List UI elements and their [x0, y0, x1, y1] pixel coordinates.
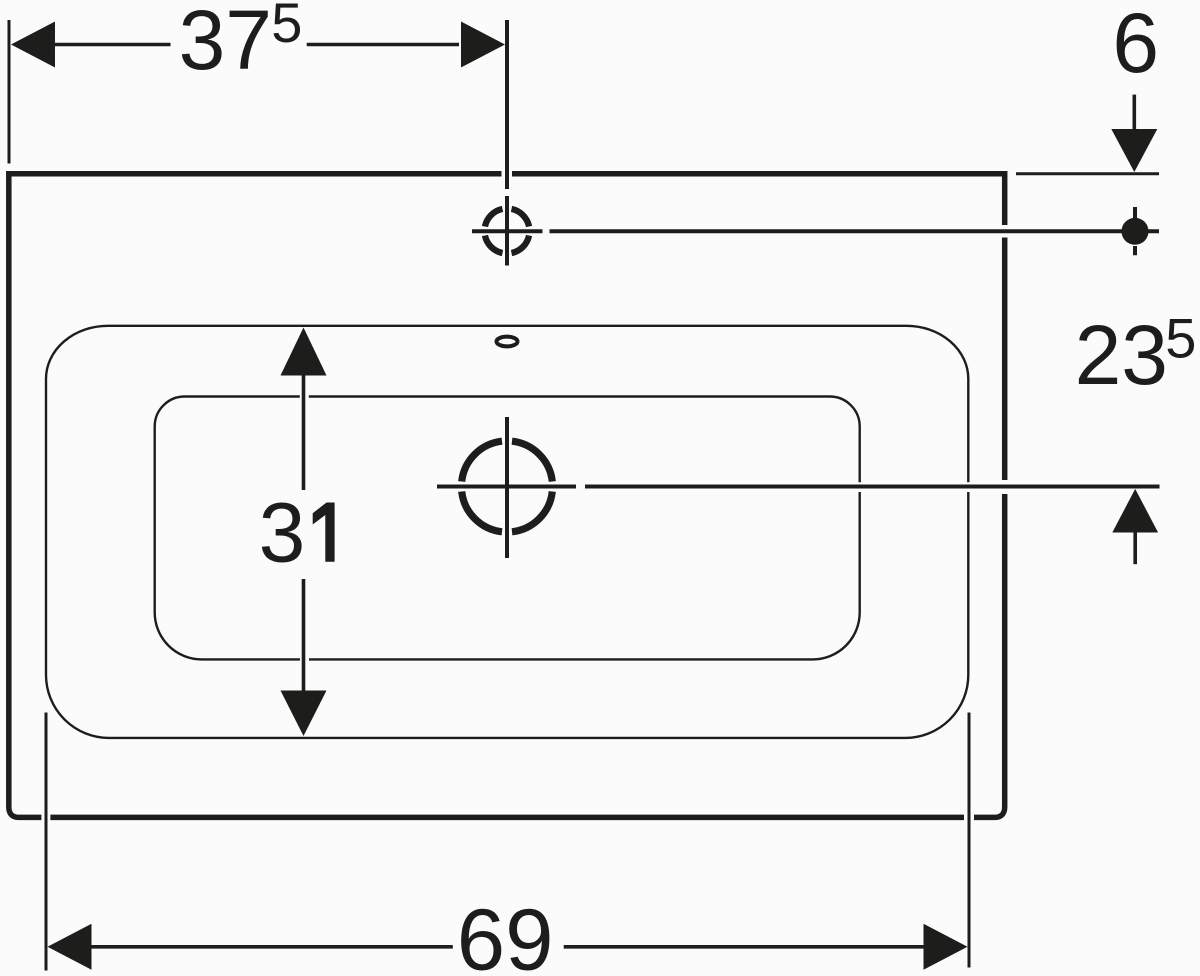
faucet hole circle (four arcs with gaps at axes) [485, 209, 529, 253]
drain hole circle (four arcs with gaps at axes) [462, 441, 553, 532]
faucet hole vertical centerline / dim extension [505, 20, 509, 266]
svg-text:5: 5 [1165, 307, 1196, 370]
dim 37.5: right arrowhead [461, 22, 505, 68]
svg-text:5: 5 [271, 0, 302, 54]
dim 23.5: stub below arrowhead [1133, 532, 1137, 564]
drain hole horizontal centerline [437, 485, 1160, 489]
dim 23.5: up arrowhead at drain line [1112, 489, 1158, 533]
overflow slot [497, 337, 518, 347]
svg-text:6: 6 [1112, 0, 1159, 90]
dim 23.5: dot terminator at faucet line [1122, 218, 1149, 245]
svg-text:23: 23 [1075, 308, 1168, 402]
dim 69: left extension line [45, 713, 48, 971]
faucet hole horizontal centerline [472, 229, 1159, 233]
dim 31: value label digit 1 (drawn, no foot serif) [313, 503, 335, 562]
drain hole vertical centerline [505, 417, 509, 558]
dim 37.5: left arrowhead [11, 22, 55, 68]
svg-text:3: 3 [259, 486, 306, 580]
dim 69: right extension line [968, 713, 971, 968]
dim 31: down arrowhead at basin bottom [281, 691, 327, 737]
dim 6: down arrowhead [1111, 129, 1157, 172]
dim 23.5: ticks through dot [1133, 207, 1137, 255]
basin inner bottom (rounded rectangle, tighter top corners, gaps at dimension lines) [155, 397, 860, 660]
svg-text:37: 37 [179, 0, 272, 87]
dim 37.5: dimension line [52, 43, 459, 47]
svg-text:69: 69 [457, 892, 554, 976]
dim 31: up arrowhead at basin top [281, 328, 327, 376]
dim 69: right arrowhead [924, 924, 968, 970]
dim 69: dimension line [89, 945, 924, 949]
dim 6: dimension line [1133, 95, 1137, 130]
washbasin outer edge (thick outline with gaps where dimension lines cross) [9, 174, 1005, 818]
dim 6: extension line at top edge [1016, 172, 1159, 175]
basin outer rim (rounded rectangle, gap at drain centerline) [46, 326, 968, 738]
dim 69: left arrowhead [48, 924, 92, 970]
dim 31: dimension line [302, 374, 306, 691]
dim 37.5: left extension line [8, 20, 11, 164]
